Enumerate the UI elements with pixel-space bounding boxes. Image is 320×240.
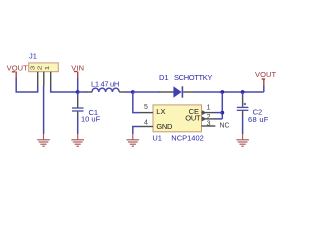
- svg-text:3: 3: [31, 66, 37, 71]
- wire node down to LX: [133, 92, 140, 113]
- wire CE to vertical: [216, 112, 223, 114]
- capacitor C1 bottom pin: [77, 112, 79, 116]
- wire VIN down to node: [77, 78, 79, 92]
- wire vertical to CE/OUT: [221, 92, 223, 119]
- svg-text:U1: U1: [152, 133, 162, 142]
- wire VIN node to L1: [78, 91, 87, 93]
- svg-text:10 uF: 10 uF: [81, 115, 101, 124]
- wire C1 to ground: [77, 116, 79, 134]
- node C2 tee: [241, 90, 245, 94]
- svg-text:VOUT: VOUT: [255, 70, 277, 79]
- pin wire 2 (OUT): [202, 118, 216, 120]
- node LX junction: [131, 90, 135, 94]
- pin wire 4 (GND): [139, 126, 153, 128]
- svg-text:2: 2: [38, 66, 44, 71]
- svg-text:VIN: VIN: [71, 64, 84, 73]
- pin wire 1 (CE): [202, 112, 216, 114]
- svg-text:1: 1: [45, 66, 51, 71]
- capacitor C1 top pin: [77, 97, 79, 107]
- IC U1 NCP1402 body: [153, 105, 202, 132]
- node VIN junction: [76, 90, 80, 94]
- ground (below C1): [71, 134, 84, 147]
- capacitor C1: [72, 108, 84, 111]
- svg-text:D1: D1: [159, 73, 169, 82]
- wire C2 to ground: [242, 115, 244, 134]
- wire VOUT right stub (red): [263, 79, 265, 86]
- wire diode to VOUT (top right): [194, 91, 264, 93]
- node CE/OUT tee: [220, 90, 224, 94]
- wire VOUT right down: [263, 86, 265, 92]
- capacitor C2 top pin: [242, 97, 244, 106]
- svg-text:68 uF: 68 uF: [248, 115, 269, 124]
- svg-text:OUT: OUT: [185, 114, 201, 123]
- label origin tick VOUT right: [262, 78, 265, 80]
- wire OUT to vertical: [216, 118, 223, 120]
- ground (below J1 pin 2): [37, 134, 50, 147]
- svg-text:GND: GND: [156, 122, 173, 131]
- capacitor C2 bottom pin: [242, 111, 244, 116]
- pin wire 3 (NC): [202, 125, 216, 127]
- svg-text:1: 1: [207, 105, 211, 112]
- J1 pin wire 3: [37, 72, 39, 86]
- inductor L1: [92, 88, 119, 92]
- wire C2 top: [242, 92, 244, 98]
- J1 pin wire 1: [50, 72, 52, 86]
- J1 pin wire 2: [43, 72, 45, 86]
- wire GND pin to ground: [133, 127, 140, 135]
- wire VOUT net to J1 pin 3: [16, 78, 38, 92]
- label origin tick VIN: [74, 71, 77, 73]
- pin chevron CE: [202, 111, 205, 115]
- ground (below C2): [236, 134, 249, 147]
- diode D1 cathode pin: [183, 91, 194, 93]
- svg-text:NCP1402: NCP1402: [171, 133, 204, 142]
- svg-text:4: 4: [144, 120, 148, 127]
- svg-text:NC: NC: [220, 122, 230, 129]
- wire node to diode: [133, 91, 160, 93]
- diode D1 anode pin: [159, 91, 174, 93]
- wire VIN stub (red): [77, 72, 79, 79]
- svg-text:5: 5: [144, 104, 148, 111]
- connector J1 body: [29, 63, 59, 72]
- svg-text:LX: LX: [156, 107, 165, 116]
- inductor L1 right pin: [119, 91, 126, 93]
- wire J1 pin 1 to VIN node: [51, 86, 78, 93]
- ground (below U1): [127, 134, 140, 147]
- capacitor C2: [237, 107, 249, 110]
- wire VOUT stub (red): [15, 72, 17, 79]
- capacitor C2 plus sign: [244, 103, 246, 105]
- wire J1 pin 2 to ground: [43, 86, 45, 135]
- wire L1 to node: [126, 91, 133, 93]
- wire VIN node down to C1: [77, 92, 79, 97]
- inductor L1 left pin: [86, 91, 92, 93]
- pin chevron OUT: [202, 117, 205, 121]
- pin wire 5 (LX): [139, 112, 153, 114]
- label origin tick VOUT left: [12, 71, 15, 73]
- svg-text:J1: J1: [29, 51, 37, 60]
- node CE junction: [220, 111, 224, 115]
- svg-text:VOUT: VOUT: [7, 64, 29, 73]
- diode D1 body: [173, 86, 181, 97]
- svg-text:L1 47 uH: L1 47 uH: [91, 79, 119, 88]
- svg-text:SCHOTTKY: SCHOTTKY: [174, 73, 212, 82]
